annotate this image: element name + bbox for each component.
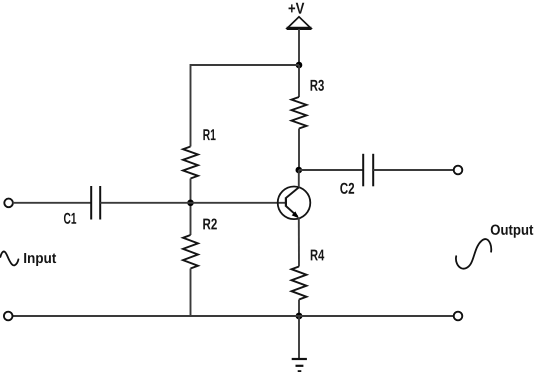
ground rail right terminal <box>454 312 463 321</box>
resistor R3 <box>292 97 307 129</box>
input sine symbol <box>0 252 18 266</box>
power +V supply symbol <box>287 17 312 29</box>
node collector junction <box>296 167 303 174</box>
wire C1 to base node <box>100 202 190 204</box>
ground rail wire <box>13 315 454 317</box>
wire emitter to R4 <box>298 218 300 267</box>
wire R3 bottom to collector node <box>298 129 300 171</box>
wire C2 to output terminal <box>373 169 454 171</box>
resistor R1 <box>183 147 198 179</box>
wire node to ground symbol <box>298 316 300 359</box>
label R2 <box>203 218 217 229</box>
wire supply to top node <box>298 29 300 65</box>
wire R4 to ground rail node <box>298 300 300 317</box>
label Output <box>491 225 534 238</box>
label C1 <box>64 213 76 224</box>
output terminal <box>454 166 463 175</box>
input terminal <box>4 199 13 208</box>
label R1 <box>203 129 215 140</box>
output sine symbol <box>456 239 491 269</box>
wire base node to transistor base <box>191 202 286 204</box>
label R4 <box>311 250 324 261</box>
node top rail junction <box>296 62 303 69</box>
wire top node down to R3 <box>298 65 300 97</box>
label Input <box>24 253 56 266</box>
wire input terminal to C1 <box>13 202 92 204</box>
wire collector node to C2 <box>299 169 363 171</box>
capacitor C1 <box>91 186 100 220</box>
node base divider junction <box>187 200 194 207</box>
transistor Q1 <box>278 170 311 219</box>
label C2 <box>340 183 354 194</box>
ground <box>292 359 307 371</box>
label +V <box>289 3 305 14</box>
ground rail left terminal <box>4 312 13 321</box>
node ground rail junction <box>296 313 303 320</box>
wire R1 bottom to base node and on to R2 <box>190 179 192 236</box>
resistor R2 <box>183 235 198 269</box>
resistor R4 <box>292 267 307 300</box>
capacitor C2 <box>363 154 373 187</box>
wire R2 bottom to ground rail <box>190 269 192 317</box>
wire top rail to R1 branch <box>191 65 300 147</box>
label R3 <box>311 80 324 91</box>
